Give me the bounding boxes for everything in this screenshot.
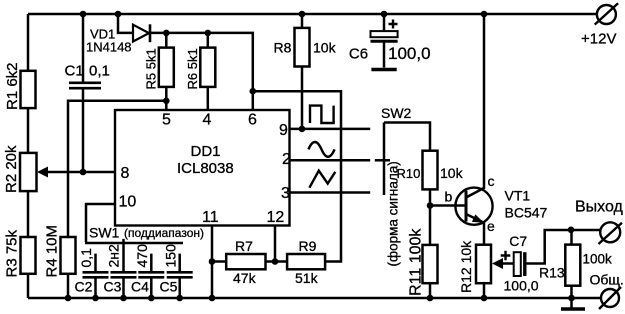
capacitor C5: [167, 271, 193, 274]
wire R3 to bottom rail: [27, 274, 30, 298]
svg-text:C5: C5: [160, 279, 178, 295]
svg-text:47k: 47k: [233, 270, 257, 286]
waveform sine (pin2): [308, 142, 334, 157]
resistor R11: [423, 245, 438, 283]
plus sign C7: [501, 251, 511, 261]
terminal +12V: [597, 5, 616, 24]
svg-text:10k: 10k: [440, 165, 464, 181]
wire C2 bottom: [94, 277, 97, 298]
wire R12 bottom: [483, 283, 486, 298]
svg-text:6: 6: [248, 112, 257, 129]
svg-text:c: c: [488, 173, 495, 189]
svg-text:12: 12: [267, 209, 285, 226]
wire pin6 down: [252, 91, 255, 110]
svg-text:2н2: 2н2: [106, 244, 122, 268]
arrow R12 wiper: [492, 258, 503, 269]
wire C2 top lead: [94, 254, 97, 272]
svg-text:C3: C3: [104, 279, 122, 295]
resistor R7: [226, 254, 265, 269]
capacitor C3: [111, 271, 137, 274]
svg-text:R6 5k1: R6 5k1: [185, 48, 200, 89]
svg-text:SW2: SW2: [381, 105, 412, 121]
resistor R10: [423, 151, 438, 190]
resistor R9: [287, 254, 325, 269]
svg-text:11: 11: [202, 209, 219, 226]
svg-text:C6: C6: [349, 46, 368, 63]
wire pin12 down: [274, 226, 277, 262]
wire output node to terminal: [571, 229, 600, 232]
resistor R5: [159, 48, 174, 87]
wire R10 bottom / R11 top / base node: [429, 189, 432, 245]
svg-text:(поддиапазон): (поддиапазон): [124, 226, 204, 240]
capacitor C4: [138, 271, 164, 274]
wire C3 bottom: [122, 277, 125, 298]
svg-text:51k: 51k: [295, 270, 319, 286]
plus sign C6: [389, 20, 398, 29]
capacitor C1: [69, 82, 101, 85]
svg-text:R3 75k: R3 75k: [4, 229, 21, 277]
wire top rail +12V: [28, 13, 597, 16]
wire R7 left lead: [212, 260, 226, 263]
svg-text:0,1: 0,1: [89, 63, 110, 80]
svg-text:10: 10: [119, 194, 137, 211]
wire R6 top lead: [207, 33, 210, 48]
resistor R12 (pot): [476, 245, 491, 284]
svg-text:C4: C4: [131, 279, 149, 295]
svg-text:150: 150: [163, 244, 179, 268]
wire R4 bottom: [67, 274, 70, 298]
svg-text:R7: R7: [235, 238, 253, 254]
terminal output: [600, 222, 620, 242]
svg-text:R2 20k: R2 20k: [3, 145, 20, 193]
svg-text:100,0: 100,0: [388, 44, 431, 63]
terminal common: [601, 289, 619, 307]
wire R12 wiper from C7: [500, 262, 514, 265]
transistor VT1 emitter: [466, 214, 484, 223]
wire R5 bottom to pin5: [165, 87, 168, 110]
svg-text:R13: R13: [539, 265, 565, 281]
wire R8 top lead: [301, 14, 304, 28]
wire emitter down: [483, 223, 486, 245]
svg-text:470: 470: [134, 244, 150, 268]
resistor R4: [61, 237, 76, 274]
svg-text:R12 10k: R12 10k: [458, 240, 474, 293]
wire C4 bottom: [150, 277, 153, 298]
svg-text:DD1: DD1: [191, 143, 221, 160]
svg-text:100,0: 100,0: [504, 278, 539, 294]
wire VD1 tap: [118, 14, 133, 33]
wire C6 bottom: [383, 43, 386, 68]
wire SW2 to R10: [384, 123, 430, 151]
svg-text:8: 8: [121, 165, 130, 182]
wire pin10 to SW1: [86, 204, 115, 242]
wire R8 bottom to pin9: [301, 67, 304, 129]
wire C3 top lead: [122, 247, 125, 271]
svg-text:R9: R9: [299, 238, 317, 254]
wire R13 bottom: [570, 286, 573, 298]
svg-text:1N4148: 1N4148: [86, 40, 132, 55]
wire R6 bottom to pin4: [207, 87, 210, 110]
svg-text:+12V: +12V: [581, 31, 616, 48]
transistor VT1 circle: [455, 188, 492, 225]
arrow VT1 emitter: [472, 214, 484, 222]
svg-text:R8: R8: [274, 40, 292, 56]
svg-text:ICL8038: ICL8038: [177, 160, 234, 177]
capacitor C6 plus lead: [383, 14, 386, 31]
wire pin8 to R2 wiper: [46, 171, 115, 174]
arrow R2 wiper: [37, 167, 48, 178]
ground C6: [371, 68, 396, 71]
wire pin2: [290, 159, 371, 162]
wire C5 top lead: [178, 254, 181, 272]
resistor R8: [295, 28, 310, 67]
wire R4 top to pin5 node: [68, 101, 166, 237]
svg-text:VT1: VT1: [505, 188, 531, 204]
waveform square (pin9): [310, 106, 334, 123]
svg-text:2: 2: [282, 151, 291, 168]
switch SW1 bar: [85, 242, 183, 245]
diode VD1: [133, 25, 149, 42]
svg-text:BC547: BC547: [505, 205, 548, 221]
resistor R1: [21, 71, 36, 108]
resistor R6: [200, 48, 215, 87]
wire R11 bottom: [429, 283, 432, 298]
resistor R13: [565, 245, 580, 286]
resistor R3: [21, 237, 36, 274]
svg-text:9: 9: [279, 122, 288, 139]
svg-text:3: 3: [281, 185, 290, 202]
svg-text:0,1: 0,1: [78, 248, 94, 268]
transistor VT1 collector: [466, 14, 484, 198]
wire C7 to output node: [527, 230, 572, 264]
wire bottom rail: [28, 297, 601, 300]
wire C1 bottom to pin8 node: [82, 88, 85, 172]
wire base: [430, 204, 466, 207]
svg-text:100k: 100k: [583, 252, 613, 267]
svg-text:4: 4: [203, 112, 212, 129]
svg-text:R1 6k2: R1 6k2: [4, 62, 21, 110]
wire R5 top lead: [165, 33, 168, 48]
svg-text:C1: C1: [65, 63, 84, 80]
switch SW1 tick C3: [122, 239, 125, 247]
junction dots: [80, 11, 87, 18]
wire R2-R3: [27, 191, 30, 237]
resistor R2 (pot body): [20, 153, 37, 191]
capacitor C2: [83, 271, 109, 274]
svg-text:Выход: Выход: [575, 199, 624, 216]
svg-text:Общ.: Общ.: [590, 272, 624, 288]
svg-text:R5 5k1: R5 5k1: [144, 48, 159, 89]
ground symbol right: [570, 298, 573, 309]
svg-text:(форма сигнала): (форма сигнала): [386, 161, 401, 266]
switch SW2 contact dash: [375, 159, 390, 162]
wire C1 tap from rail: [82, 14, 85, 82]
transistor VT1 base bar: [465, 191, 468, 222]
wire pin3: [290, 191, 371, 194]
wire R1-R2: [27, 108, 30, 153]
wire C5 bottom: [178, 277, 181, 298]
wire R9 right riser to pin6 node: [253, 91, 341, 261]
svg-text:10k: 10k: [313, 40, 337, 56]
wire R7 right lead: [266, 260, 288, 263]
wire pin9: [290, 128, 371, 131]
svg-text:e: e: [487, 218, 495, 234]
svg-text:C7: C7: [509, 233, 527, 249]
svg-text:b: b: [445, 189, 453, 205]
svg-text:R11 100k: R11 100k: [408, 228, 425, 296]
wire pin11 down: [211, 226, 214, 299]
capacitor C7: [514, 252, 521, 276]
svg-text:SW1: SW1: [89, 225, 120, 241]
svg-text:C2: C2: [75, 279, 93, 295]
wire C4 top lead: [150, 254, 153, 272]
wire R13 top: [570, 230, 573, 245]
wire left column x=28: [27, 14, 30, 71]
capacitor C6: [371, 31, 398, 37]
svg-text:R4 10M: R4 10M: [44, 225, 61, 278]
waveform triangle (pin3): [309, 171, 335, 188]
svg-text:5: 5: [162, 112, 171, 129]
wire VD1 cathode to pin6 corner: [150, 33, 253, 91]
IC DD1 box: [115, 110, 290, 226]
switch SW2 pole: [383, 123, 386, 196]
